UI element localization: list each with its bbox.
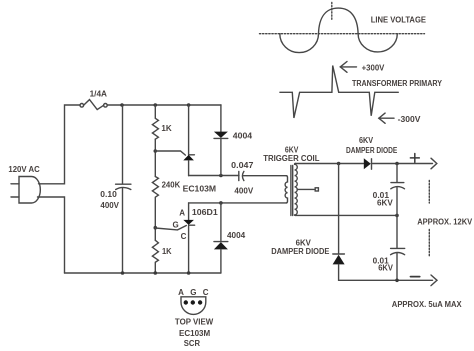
arrow -300V: [379, 113, 394, 123]
svg-text:0.047: 0.047: [231, 161, 254, 170]
svg-text:A: A: [178, 288, 184, 297]
svg-text:DAMPER DIODE: DAMPER DIODE: [271, 247, 330, 256]
wire gate SCR1: [155, 151, 185, 155]
svg-text:TOP VIEW: TOP VIEW: [175, 317, 214, 326]
capacitor C4 0.01 6KV: [391, 215, 405, 280]
svg-text:6KV: 6KV: [359, 136, 374, 145]
arrow plus output: [431, 158, 437, 169]
resistor R1 1K: [152, 105, 158, 177]
waveform line voltage sine: [280, 8, 398, 53]
resistor R3 1K: [152, 240, 158, 273]
svg-text:240K: 240K: [162, 180, 181, 189]
svg-text:G: G: [173, 220, 179, 229]
capacitor C1 0.10 400V: [116, 105, 131, 273]
waveform line voltage axis: [260, 33, 425, 35]
wire secondary mid tap: [298, 188, 315, 190]
svg-text:APPROX. 12KV: APPROX. 12KV: [417, 218, 473, 227]
wire SCR2 anode rail: [189, 202, 287, 204]
capacitor C2 0.047 400V: [239, 171, 287, 180]
svg-text:TRIGGER COIL: TRIGGER COIL: [263, 154, 319, 163]
junction D2 top: [219, 201, 223, 205]
node A junction: [337, 162, 341, 166]
SCR U1 EC103M: [183, 105, 194, 176]
svg-text:C: C: [181, 232, 187, 241]
arrow +300V: [340, 62, 356, 73]
wire minus output rail: [339, 279, 433, 281]
svg-text:A: A: [179, 208, 185, 217]
junction top rail C1: [120, 103, 124, 107]
node gate1 junction: [154, 149, 158, 153]
svg-text:1/4A: 1/4A: [90, 89, 108, 98]
resistor R2 240K: [152, 177, 158, 241]
svg-text:0.10: 0.10: [100, 190, 117, 199]
plug P1 120V AC: [11, 177, 40, 204]
junction D1 bottom: [219, 174, 223, 178]
dotted measure line bottom: [428, 230, 430, 258]
svg-text:EC103M: EC103M: [183, 184, 217, 193]
svg-text:1K: 1K: [161, 124, 172, 133]
terminal square mid tap: [315, 188, 318, 191]
fuse F1 1/4A: [80, 100, 107, 110]
svg-text:-300V: -300V: [398, 115, 421, 124]
junction bottom rail R3: [154, 271, 158, 275]
diode D2 4004: [214, 203, 228, 273]
arrow minus output: [431, 275, 437, 286]
minus sign: [411, 276, 420, 278]
junction bottom rail SCR2: [187, 271, 191, 275]
SCR U2 106D1: [183, 203, 194, 273]
diode D3 6KV damper diode: [364, 158, 372, 169]
transformer T1 trigger coil primary: [285, 176, 287, 203]
wire top rail: [107, 104, 221, 106]
svg-text:6KV: 6KV: [377, 199, 393, 208]
plus sign: [410, 154, 419, 163]
junction top rail R1: [154, 103, 158, 107]
dotted measure line top: [428, 181, 430, 204]
wire diode to plus output: [372, 163, 433, 165]
svg-text:LINE VOLTAGE: LINE VOLTAGE: [371, 16, 427, 25]
wire SCR1 cathode to coupling cap: [189, 175, 239, 177]
svg-text:G: G: [190, 288, 196, 297]
svg-text:TRANSFORMER PRIMARY: TRANSFORMER PRIMARY: [352, 79, 443, 88]
junction top rail SCR1: [187, 103, 191, 107]
svg-text:4004: 4004: [233, 132, 253, 141]
waveform line voltage center dashed: [331, 3, 333, 22]
svg-text:6KV: 6KV: [285, 146, 299, 155]
diode D1 4004: [214, 105, 228, 176]
svg-text:120V AC: 120V AC: [8, 165, 40, 174]
wire plug top to fuse rail: [39, 105, 81, 184]
svg-text:APPROX. 5uA MAX: APPROX. 5uA MAX: [392, 300, 462, 309]
svg-text:EC103M: EC103M: [179, 329, 211, 338]
wire secondary top to diode: [295, 163, 363, 165]
svg-text:1K: 1K: [162, 247, 172, 256]
svg-text:SCR: SCR: [184, 339, 200, 346]
svg-text:6KV: 6KV: [378, 263, 393, 272]
wire secondary bottom to cap junction: [295, 214, 397, 216]
svg-text:DAMPER DIODE: DAMPER DIODE: [346, 146, 398, 155]
svg-text:400V: 400V: [234, 187, 253, 196]
wire node A vertical: [338, 164, 340, 255]
capacitor C3 0.01 6KV: [391, 164, 405, 216]
waveform transformer primary: [280, 66, 398, 119]
diode D4 6KV damper diode: [333, 254, 345, 280]
svg-text:106D1: 106D1: [192, 208, 219, 217]
svg-text:4004: 4004: [227, 231, 246, 240]
transformer T1 secondary: [295, 164, 298, 216]
junction C3 C4 mid: [395, 214, 399, 218]
wire gate SCR2: [155, 226, 186, 230]
junction C4 bottom: [395, 279, 399, 283]
svg-text:C: C: [203, 288, 209, 297]
wire bottom rail: [65, 272, 221, 274]
junction C3 top: [395, 162, 399, 166]
wire plug bottom to bottom rail: [38, 197, 65, 273]
junction bottom rail C1: [121, 271, 125, 275]
svg-text:+300V: +300V: [362, 64, 385, 73]
transformer T1 core: [291, 166, 293, 216]
node gate2 junction: [154, 226, 158, 230]
TO-92 package top view: [181, 297, 206, 315]
svg-text:400V: 400V: [100, 201, 119, 210]
